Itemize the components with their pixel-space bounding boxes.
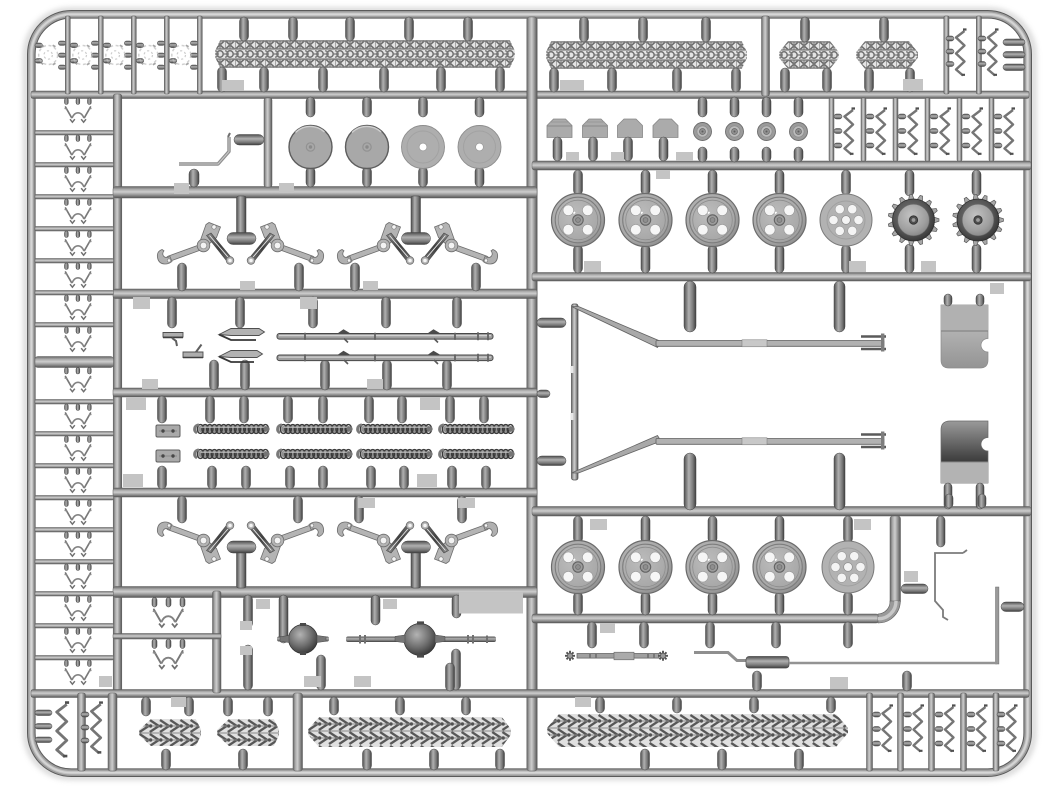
peg (link to divider) xyxy=(65,368,69,375)
left column divider t4 xyxy=(35,227,114,232)
leaf spring shackle (bottom right 5) xyxy=(1007,706,1018,752)
peg xyxy=(762,147,771,162)
peg xyxy=(553,137,562,161)
coil spring 1 xyxy=(195,425,270,434)
bottom right spring cell divider 3 xyxy=(929,693,935,771)
hanger peg xyxy=(684,453,696,510)
peg xyxy=(443,360,452,390)
peg xyxy=(794,97,803,117)
top strip cell divider 5 xyxy=(197,16,202,94)
peg xyxy=(363,749,372,770)
cell 4 right peg b xyxy=(157,53,165,57)
peg xyxy=(904,741,912,746)
rear axle (long) xyxy=(346,637,496,643)
coil spring 5 xyxy=(195,450,270,459)
idler wheel A xyxy=(820,194,872,246)
left column divider t7 xyxy=(35,323,114,328)
T runner stem 1 xyxy=(237,196,247,236)
wheel disc 2 xyxy=(346,126,389,169)
peg (frame rail) xyxy=(537,318,566,328)
peg (link to divider) xyxy=(88,368,92,375)
cell 5 right peg c xyxy=(190,65,198,69)
T runner cap 3 xyxy=(227,541,256,553)
sprue gate pad xyxy=(174,183,189,194)
sprue gate pad xyxy=(240,281,255,290)
peg xyxy=(945,494,953,508)
sprue gate pad xyxy=(256,599,270,609)
T runner stem 4 xyxy=(411,549,421,588)
cell 4 right peg c xyxy=(157,65,165,69)
leaf spring shackle (strip2 1) xyxy=(845,109,856,155)
peg xyxy=(944,294,952,306)
peg (track to H1) xyxy=(437,67,446,92)
cell 3 left peg a xyxy=(103,43,111,48)
peg (link to divider) xyxy=(76,98,80,105)
drive shaft u-joint left xyxy=(565,651,575,661)
peg xyxy=(279,595,288,643)
hanger peg xyxy=(684,281,696,332)
sprue gate pad xyxy=(611,152,624,161)
peg xyxy=(178,263,187,291)
peg xyxy=(708,516,717,543)
peg xyxy=(152,639,157,649)
track link end L17 xyxy=(65,637,92,652)
peg (link to divider) xyxy=(88,404,92,411)
coil spring 3 xyxy=(358,425,433,434)
peg xyxy=(935,741,943,746)
left column divider b4 xyxy=(35,496,114,501)
left column divider b8 xyxy=(35,624,114,629)
wheel disc 4 xyxy=(458,126,501,169)
suspension arm 1 xyxy=(157,223,233,265)
suspension arm 8 xyxy=(421,522,497,564)
peg (left frame) xyxy=(35,710,52,716)
peg (link to divider) xyxy=(76,135,80,142)
cell 1 right peg c xyxy=(58,65,66,69)
peg (link to divider) xyxy=(76,327,80,334)
sprue gate pad xyxy=(575,697,591,707)
peg xyxy=(873,741,881,746)
track link end L4 xyxy=(65,208,92,223)
cell 2 right peg c xyxy=(91,65,99,69)
peg (track to H1) xyxy=(218,67,227,92)
peg xyxy=(158,396,167,423)
peg xyxy=(962,143,970,148)
track link end L13 xyxy=(65,509,92,524)
peg xyxy=(319,396,328,423)
chassis vertical rail xyxy=(572,304,579,480)
coil spring 8 xyxy=(440,450,515,459)
peg (link to divider) xyxy=(65,564,69,571)
stub peg xyxy=(537,390,550,398)
peg xyxy=(898,129,906,134)
chassis bottom rail xyxy=(656,439,884,445)
track section (top middle) xyxy=(546,41,747,69)
peg xyxy=(673,68,682,92)
fender part 1 xyxy=(941,305,988,368)
cell 3 right peg b xyxy=(124,53,132,57)
peg xyxy=(264,697,273,716)
cell 2 left peg a xyxy=(70,43,78,48)
peg xyxy=(844,592,853,615)
peg (link to divider) xyxy=(76,368,80,375)
bar V1 (left column right edge) xyxy=(113,94,122,694)
torsion rod 1 xyxy=(277,334,493,340)
peg (link to divider) xyxy=(76,263,80,270)
peg (track to H1) xyxy=(319,67,328,92)
peg xyxy=(371,595,380,625)
track link end L6 xyxy=(65,272,92,287)
peg (link to divider) xyxy=(65,500,69,507)
stowage box 3 xyxy=(618,119,643,138)
spring seat plate 1 xyxy=(156,425,180,437)
peg xyxy=(641,592,650,615)
track link end L9 xyxy=(65,377,92,392)
peg xyxy=(905,170,914,196)
peg xyxy=(930,129,938,134)
peg xyxy=(475,97,484,117)
peg xyxy=(937,516,946,547)
peg xyxy=(480,396,489,423)
track link end L18 xyxy=(65,669,92,684)
bar H2L (row2/row3 left) xyxy=(113,187,537,199)
peg xyxy=(906,68,915,92)
peg xyxy=(732,68,741,92)
peg xyxy=(994,143,1002,148)
peg (link to divider) xyxy=(76,532,80,539)
peg xyxy=(152,598,157,608)
peg (link to divider) xyxy=(65,404,69,411)
peg xyxy=(978,49,986,54)
peg xyxy=(306,167,315,187)
peg (track to H1) xyxy=(380,67,389,92)
peg xyxy=(946,49,954,54)
top strip cell divider 2 xyxy=(98,16,103,94)
peg xyxy=(189,169,199,187)
peg xyxy=(168,297,177,328)
peg xyxy=(962,114,970,119)
torsion rod 1 clamps xyxy=(337,329,441,334)
strip2 spring cell divider 1 xyxy=(829,98,834,161)
peg xyxy=(698,97,707,117)
peg xyxy=(873,712,881,717)
cell 1 left peg a xyxy=(35,43,43,48)
peg xyxy=(967,727,975,732)
peg (link to divider) xyxy=(76,167,80,174)
peg (link to divider) xyxy=(76,468,80,475)
peg xyxy=(935,727,943,732)
peg xyxy=(382,297,391,328)
track end connector 3 xyxy=(106,45,125,65)
sprue gate pad xyxy=(171,697,186,707)
peg xyxy=(496,749,505,770)
peg (link to divider) xyxy=(88,199,92,206)
T runner cap 2 xyxy=(402,233,431,245)
peg xyxy=(81,738,89,743)
peg (gate stub) xyxy=(772,622,781,648)
peg (left frame) xyxy=(35,737,52,743)
drive sprocket 2 xyxy=(953,195,1004,246)
peg (top bar to track) xyxy=(289,17,298,41)
suspension arm 6 xyxy=(247,522,323,564)
idler pulley xyxy=(758,123,776,141)
peg xyxy=(873,727,881,732)
peg (link to divider) xyxy=(88,660,92,667)
sprue gate pad xyxy=(849,261,866,272)
track link end L11 xyxy=(65,445,92,460)
peg xyxy=(294,496,303,523)
row7 track link U1 xyxy=(153,610,184,627)
track link end L10 xyxy=(65,413,92,428)
track link end L7 xyxy=(65,304,92,319)
peg (link to divider) xyxy=(65,468,69,475)
cell 5 right peg a xyxy=(190,41,198,45)
peg xyxy=(398,396,407,423)
peg xyxy=(367,466,376,489)
peg xyxy=(659,137,668,161)
track end connector 5 xyxy=(172,45,191,65)
sprue gate pad xyxy=(304,676,321,687)
peg xyxy=(166,598,171,608)
left column divider t1 xyxy=(35,131,114,136)
peg (link to divider) xyxy=(65,98,69,105)
fender part 1 top face xyxy=(941,305,988,331)
peg xyxy=(978,36,986,41)
bottom right spring cell divider 2 xyxy=(898,693,904,771)
strip2 spring cell divider 5 xyxy=(957,98,962,161)
peg (link to divider) xyxy=(88,135,92,142)
peg xyxy=(834,143,842,148)
track link end L14 xyxy=(65,541,92,556)
peg (link to divider) xyxy=(88,327,92,334)
peg xyxy=(574,516,583,543)
peg xyxy=(580,17,589,42)
peg xyxy=(639,17,648,42)
peg (to right frame) xyxy=(1003,64,1025,71)
peg (link to divider) xyxy=(76,404,80,411)
peg xyxy=(794,147,803,162)
left column divider t3 xyxy=(35,195,114,200)
track link end L16 xyxy=(65,605,92,620)
track link end L8 xyxy=(65,336,92,351)
road wheel A xyxy=(552,194,605,247)
peg xyxy=(972,170,981,196)
peg xyxy=(210,360,219,390)
peg xyxy=(976,294,984,306)
peg (link to divider) xyxy=(65,596,69,603)
leaf spring shackle (bottom left 1) xyxy=(57,703,69,757)
sprue gate pad xyxy=(681,152,693,161)
track section (top short 1) xyxy=(779,41,839,69)
top strip cell divider 1 xyxy=(65,16,70,94)
bar V3 (top strip divider) xyxy=(762,16,770,96)
sprue gate pad xyxy=(854,519,871,530)
peg xyxy=(244,595,253,628)
peg (link to divider) xyxy=(65,263,69,270)
bar H2R (below fittings strip) xyxy=(532,161,1031,170)
sprue gate pad xyxy=(367,379,383,389)
row7 cell divider xyxy=(213,591,222,693)
chassis bottom rail end bracket xyxy=(861,435,886,448)
idler wheel B xyxy=(822,541,874,593)
peg xyxy=(641,245,650,273)
peg xyxy=(901,584,928,594)
drive shaft xyxy=(577,654,659,659)
road wheel A xyxy=(686,194,739,247)
peg (link to divider) xyxy=(65,532,69,539)
sprue gate pad xyxy=(300,297,317,309)
peg xyxy=(708,245,717,273)
cell 3 right peg a xyxy=(124,41,132,45)
peg xyxy=(842,245,851,273)
bar H5L xyxy=(113,488,537,497)
leaf spring shackle (strip2 6) xyxy=(1005,109,1016,155)
strip2 spring cell divider 4 xyxy=(925,98,930,161)
peg (gate stub) xyxy=(588,622,597,648)
bar V2 (central divider) xyxy=(527,17,537,771)
leaf spring shackle (bottom right 4) xyxy=(977,706,988,752)
leaf spring shackle (strip2 3) xyxy=(909,109,920,155)
T runner stem 2 xyxy=(411,196,421,236)
road wheel B xyxy=(552,541,605,594)
peg (link to divider) xyxy=(65,231,69,238)
peg xyxy=(185,697,194,716)
track section (bottom short 1) xyxy=(139,719,201,746)
peg xyxy=(462,697,471,715)
peg (link to divider) xyxy=(88,295,92,302)
cell 3 left peg b xyxy=(103,59,111,64)
peg (link to divider) xyxy=(88,436,92,443)
suspension arm 5 xyxy=(157,522,233,564)
leaf spring shackle (strip2 4) xyxy=(941,109,952,155)
track end connector 2 xyxy=(73,45,92,65)
peg (left frame) xyxy=(35,724,52,730)
peg xyxy=(972,244,981,273)
idler pulley xyxy=(790,123,808,141)
peg (to right frame) xyxy=(1003,52,1025,59)
peg xyxy=(624,137,633,161)
peg (link to divider) xyxy=(65,199,69,206)
sprue gate pad xyxy=(358,498,375,508)
leaf spring shackle (bottom right 1) xyxy=(883,706,894,752)
bottom right spring cell divider 1 xyxy=(867,693,873,771)
left column divider b3 xyxy=(35,464,114,469)
peg (link to divider) xyxy=(88,263,92,270)
sprue gate pad xyxy=(676,152,689,161)
peg xyxy=(355,496,364,523)
leaf spring shackle (bottom right 3) xyxy=(945,706,956,752)
peg xyxy=(935,712,943,717)
track section (bottom long right) xyxy=(547,714,848,747)
T runner stem 3 xyxy=(237,549,247,588)
peg xyxy=(795,749,804,770)
bottom strip divider 2 xyxy=(108,693,117,771)
peg xyxy=(827,697,836,713)
cell 3 right peg c xyxy=(124,65,132,69)
peg xyxy=(718,749,727,770)
cell 1 right peg b xyxy=(58,53,66,57)
peg xyxy=(430,749,439,770)
fender part 2 xyxy=(941,421,988,483)
peg xyxy=(180,598,185,608)
muffler xyxy=(746,657,789,669)
sprue gate pad xyxy=(363,281,378,290)
row7 track link U2 xyxy=(153,651,184,668)
peg xyxy=(365,396,374,423)
chassis top rail xyxy=(656,341,884,347)
coil spring 4 xyxy=(440,425,515,434)
peg xyxy=(239,749,248,770)
hanger peg xyxy=(834,453,845,510)
spring seat plate 2 xyxy=(156,450,180,462)
front axle (short) xyxy=(277,637,329,642)
stowage box 1 xyxy=(547,119,572,138)
peg xyxy=(880,17,889,42)
left column divider b1 xyxy=(35,400,114,405)
peg xyxy=(158,466,167,489)
peg xyxy=(206,396,215,423)
peg xyxy=(730,147,739,162)
cell 5 left peg b xyxy=(169,59,177,64)
peg xyxy=(930,114,938,119)
idler pulley xyxy=(694,123,712,141)
peg xyxy=(295,263,304,291)
sprue gate pad xyxy=(990,283,1004,294)
peg xyxy=(997,741,1005,746)
large gate pad xyxy=(459,593,523,614)
peg (link to divider) xyxy=(88,468,92,475)
peg (link to divider) xyxy=(88,500,92,507)
peg (to right frame) xyxy=(1003,39,1025,46)
peg xyxy=(396,697,405,715)
peg xyxy=(753,671,762,691)
peg xyxy=(178,496,187,523)
wheel disc 3 xyxy=(402,126,445,169)
suspension arm 7 xyxy=(337,522,413,564)
sprue gate pad xyxy=(142,379,158,389)
peg xyxy=(834,114,842,119)
road wheel A xyxy=(619,194,672,247)
idler pulley xyxy=(726,123,744,141)
left column divider b2 xyxy=(35,432,114,437)
peg xyxy=(162,749,171,770)
peg (link to divider) xyxy=(76,500,80,507)
peg xyxy=(898,143,906,148)
peg (link to divider) xyxy=(65,167,69,174)
peg (link to divider) xyxy=(76,231,80,238)
peg xyxy=(608,68,617,92)
peg xyxy=(978,62,986,67)
cell 1 left peg b xyxy=(35,59,43,64)
peg xyxy=(946,62,954,67)
peg xyxy=(208,466,217,489)
peg xyxy=(482,466,491,489)
hanger peg xyxy=(834,281,845,332)
track section (bottom short 2) xyxy=(217,719,279,746)
peg xyxy=(994,129,1002,134)
road wheel B xyxy=(686,541,739,594)
peg xyxy=(750,697,759,713)
peg xyxy=(997,712,1005,717)
peg (link to divider) xyxy=(76,628,80,635)
peg xyxy=(351,263,360,291)
exhaust pipe xyxy=(694,653,748,661)
peg (track to H1) xyxy=(496,67,505,92)
peg xyxy=(994,114,1002,119)
sprue gate pad xyxy=(354,676,371,687)
cell 4 right peg a xyxy=(157,41,165,45)
peg xyxy=(242,466,251,489)
